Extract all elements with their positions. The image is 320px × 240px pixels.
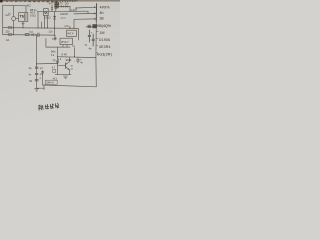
svg-text:4.7k: 4.7k [58,2,63,5]
resistor R5 small box left [53,69,56,72]
diode VD5 triangle [54,16,56,18]
wire: meter branch lower [13,21,15,35]
capacitor C2 on line L2 [38,33,39,37]
wire: emitter ground bus [55,74,71,76]
filter U3 box2 [60,38,72,44]
ticks: bus to labels [96,32,98,53]
wire: rectifier lead 2 [47,16,49,28]
wire: rectifier lead 1 [43,16,45,28]
wire: collector [66,58,70,65]
diode VD1 vertical [51,5,53,12]
svg-text:0.5Ω: 0.5Ω [30,13,36,17]
transistor VT1 base bar [65,63,67,68]
wire: vertical right of regulator [78,29,80,41]
wire: diode chain drop [69,6,71,11]
labels / annotation text [5,1,93,90]
ground GND1 [63,76,68,78]
wire: diode chain [57,5,70,7]
svg-text:1M: 1M [100,31,105,35]
wire: bus step down [87,11,89,14]
wire: AC line L2 [3,34,55,37]
svg-text:R 4R: R 4R [62,54,68,57]
capacitor C9 on chain [35,80,38,81]
meter PA1 circle [12,17,16,21]
wire: mid vertical stub [41,22,43,28]
capacitor C1 dark [55,2,58,8]
svg-text:38: 38 [100,17,104,21]
ground GND2 chain bottom [35,89,39,91]
wire: mid vertical x54 [54,12,56,36]
wire: horizontal base feed [37,62,58,65]
wire: bus left stub down [37,12,39,28]
svg-text:47μ: 47μ [52,37,57,41]
wire: output line B [74,12,96,15]
svg-text:AG3(2R): AG3(2R) [97,53,112,57]
right margin output labels [88,6,112,57]
svg-text:4 6.3: 4 6.3 [60,18,66,20]
wire: output line A [76,6,96,9]
arrowhead output C [94,18,96,20]
capacitor C3 below x54 [54,35,56,40]
svg-text:4.7k: 4.7k [64,25,69,28]
wire: bottom mid bus [58,56,96,59]
wire: stub A to bus [75,8,77,12]
svg-text:4#9%: 4#9% [100,6,111,10]
svg-text:W7.4: W7.4 [67,32,74,36]
wire: bottom frame line [43,85,97,87]
wire: meter to transformer [16,18,19,20]
svg-text:24% A: 24% A [46,81,54,85]
wire: transformer bottom lead [22,21,24,27]
svg-text:12v: 12v [49,30,54,34]
wire: right bus [95,21,97,87]
wire: left frame vertical [2,5,4,35]
wire: output line C [74,18,96,20]
svg-text:1N4007: 1N4007 [60,13,69,16]
svg-text:B4m: B4m [51,52,56,54]
transformer T1 box [19,13,28,22]
svg-text:7R: 7R [52,59,55,62]
capacitor C11 on column [56,61,58,62]
svg-text:WY4.7: WY4.7 [61,41,69,44]
diode VD2 bowtie [61,5,63,7]
rectifier U1 box [44,9,49,16]
junction dots [13,8,76,65]
wire: vertical x74 [74,48,76,57]
diode VD5 on x54 vertical [54,16,56,19]
capacitor C10 column x42 [41,71,43,86]
wire: AC line L1 [3,27,78,30]
fuse FU1 [8,27,12,29]
wire: top wire from frame to transformer [3,5,26,12]
wire: bottom step [37,85,44,88]
diode VD4 triangle [32,34,34,36]
dark mark near output D [92,24,96,28]
diode VD3 bowtie [65,5,67,7]
emitter arrowhead [68,68,70,70]
arrowhead output B [94,13,96,15]
capacitor C6 near bus [92,34,94,46]
capacitor C12 right [77,58,80,63]
capacitor C5 near bus [88,30,90,42]
capacitor C7 on chain [35,67,38,68]
svg-text:QL: QL [44,10,48,14]
svg-text:9013: 9013 [66,58,72,62]
wire: output line D [86,26,96,28]
svg-text:4.4h: 4.4h [70,9,75,12]
resistor R1 on line L2 [25,34,29,36]
wire: base [58,65,66,67]
regulator U2 box [67,30,77,36]
svg-text:0.51/2: 0.51/2 [44,17,51,20]
caption handwriting [38,103,59,110]
wire: stub above regulator [69,26,71,28]
svg-text:Lb: Lb [6,38,10,42]
svg-text:M5(4Q%: M5(4Q% [97,24,112,28]
arrowhead output A [94,6,96,8]
svg-text:mA: mA [5,13,10,17]
wire: top DC bus [37,10,88,13]
wire: box2 leads [63,45,67,47]
transformer T1 core bars [25,14,26,21]
wire: vertical chain x36.6 [36,35,38,88]
svg-text:4h: 4h [100,11,104,15]
wire: L corner to transistor column [46,39,70,48]
svg-text:D1906: D1906 [99,38,110,42]
wire: transistor column [57,47,59,74]
wire: stub C down [73,19,75,28]
svg-text:7E: 7E [29,79,32,83]
wire: emitter [66,67,70,75]
svg-text:103: 103 [65,2,70,5]
fuse FU2 [8,34,12,36]
label box BL1 [45,80,57,84]
svg-text:4μ: 4μ [29,66,32,70]
photo top edge band [0,0,120,1]
wire: right terminal bracket [95,4,97,22]
capacitor C8 on chain [35,73,38,74]
svg-text:220: 220 [5,29,10,33]
svg-text:4E3R4: 4E3R4 [99,45,111,49]
diode VD4 on line L2 [33,34,35,36]
diode VD1 triangle [32,5,97,70]
svg-text:14.2: 14.2 [52,78,57,80]
wire: meter branch upper [13,6,15,17]
arrow mark on lead [22,23,24,24]
